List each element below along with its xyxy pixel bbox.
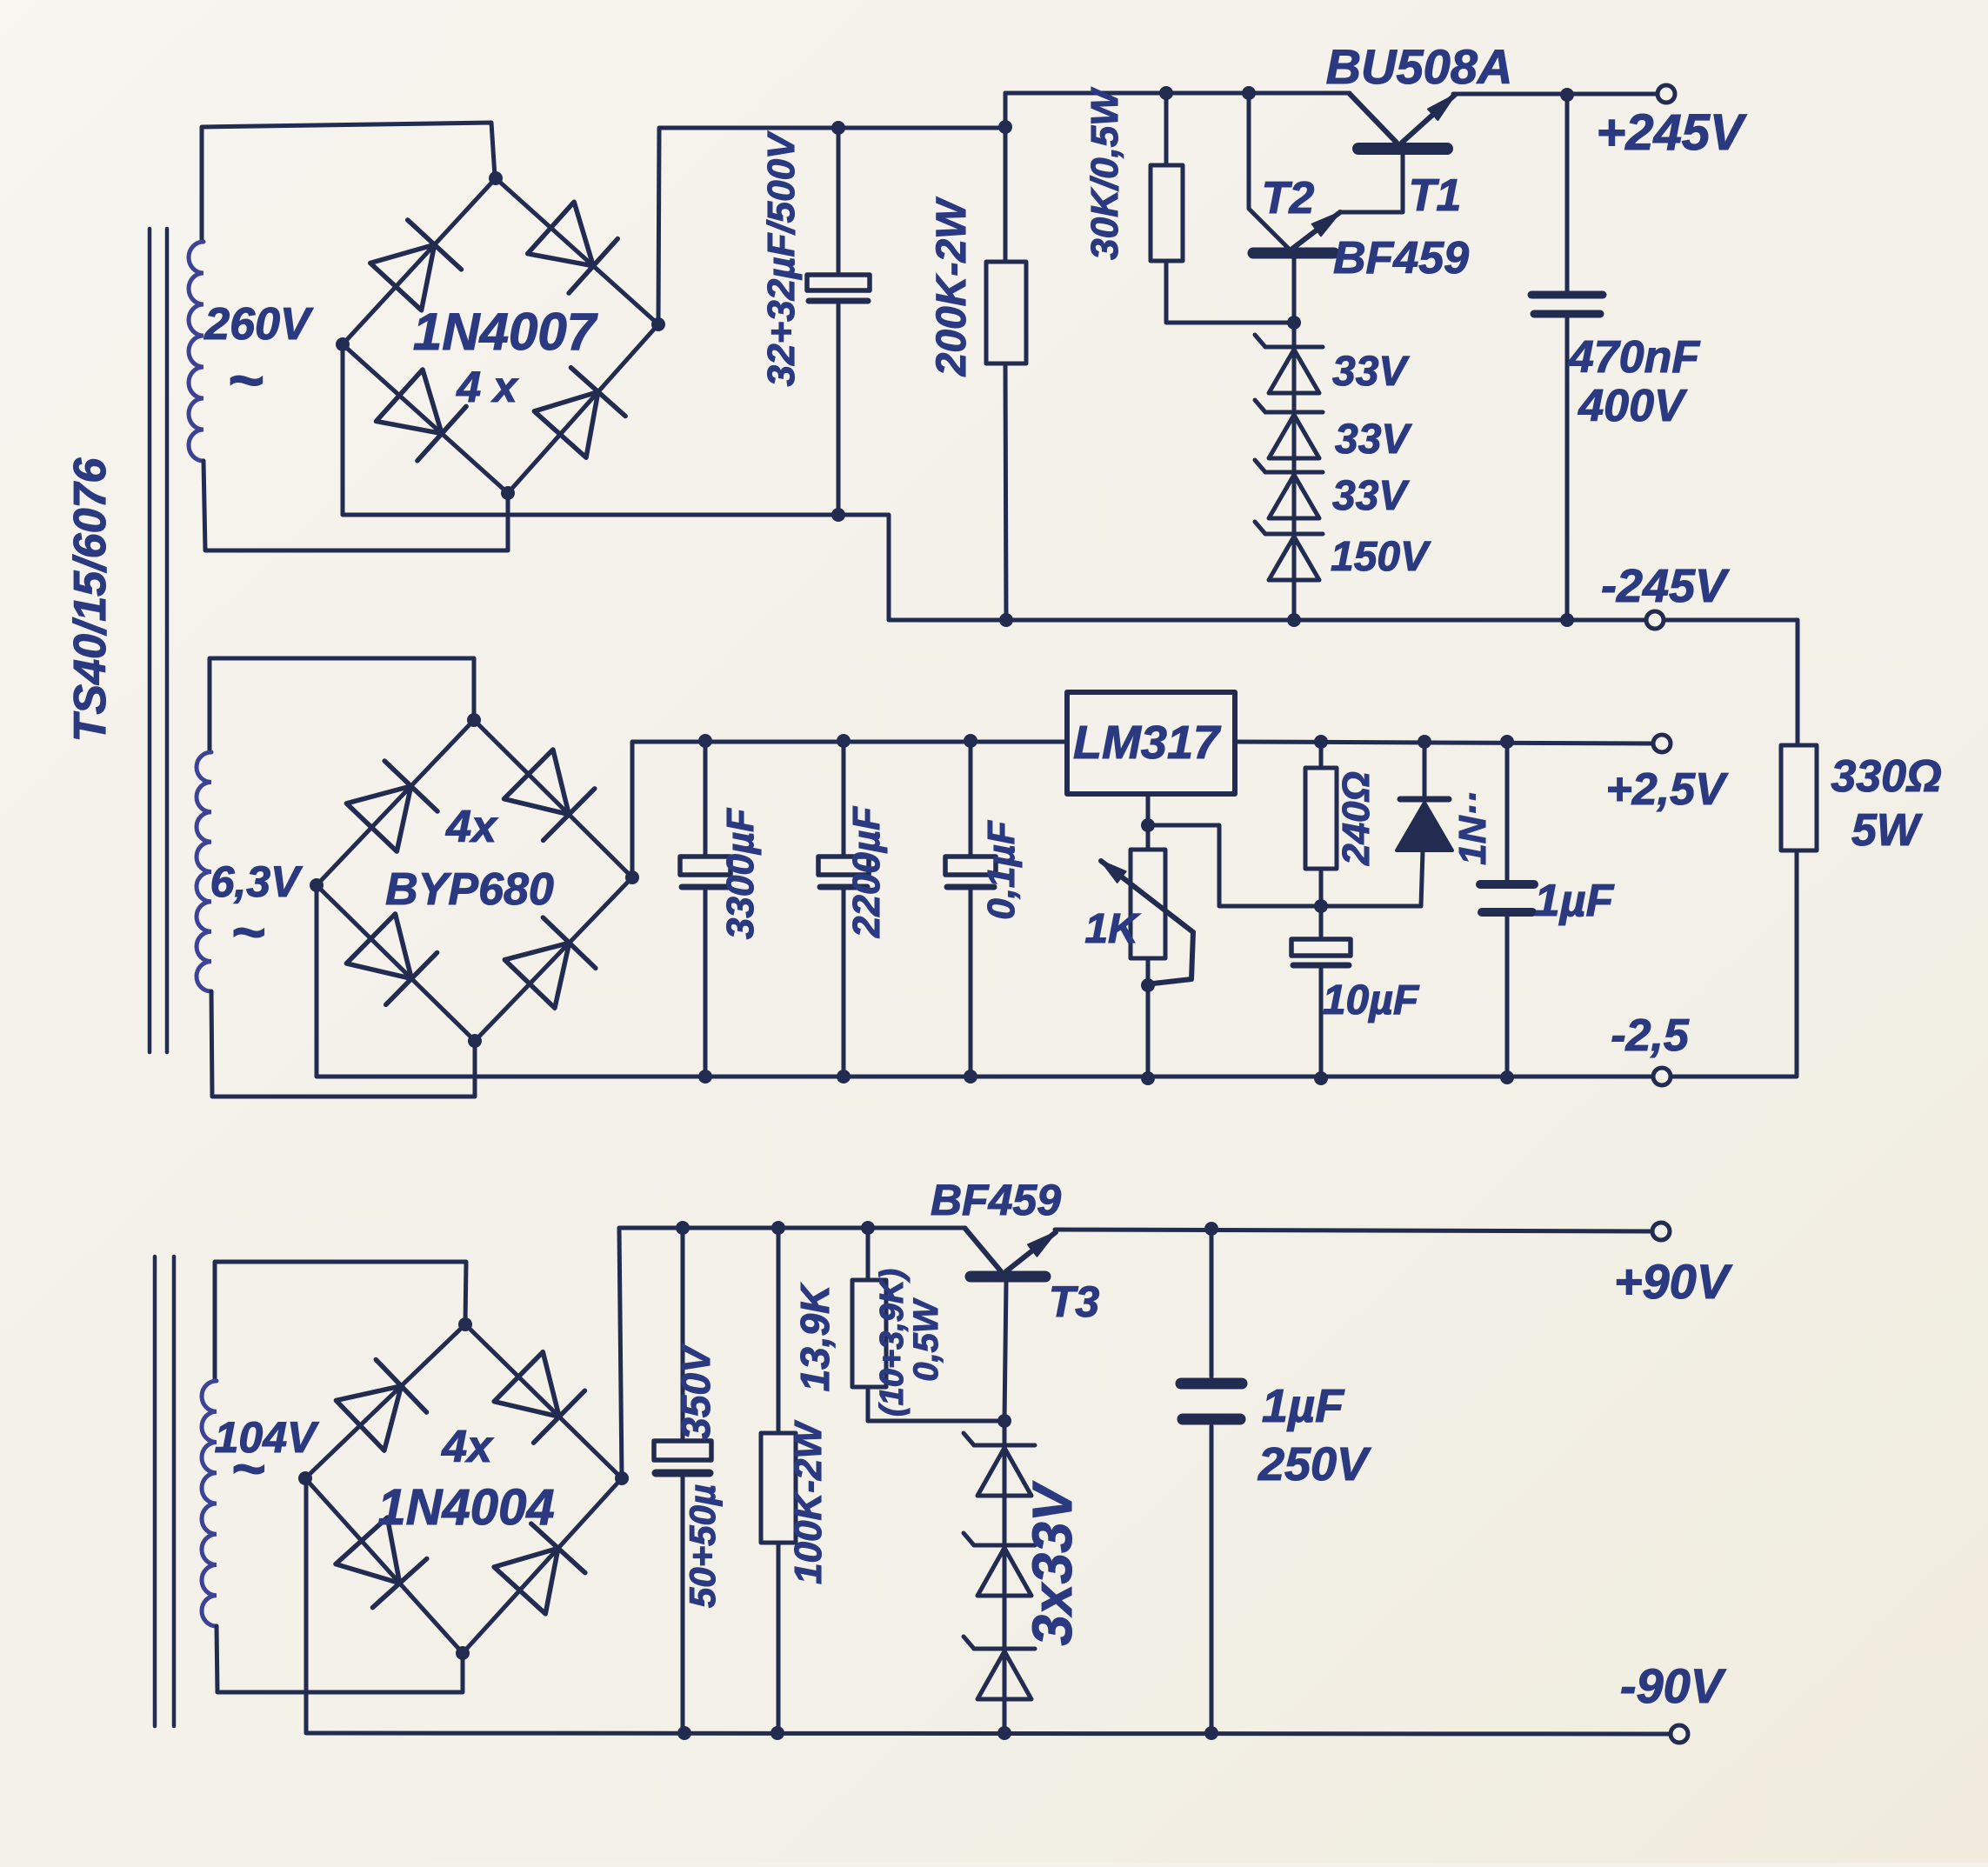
svg-text:470nF: 470nF xyxy=(1568,332,1701,383)
svg-text:(10+3,9K): (10+3,9K) xyxy=(874,1269,911,1417)
svg-text:400V: 400V xyxy=(1578,381,1688,431)
svg-text:-2,5: -2,5 xyxy=(1611,1010,1690,1061)
svg-text:LM317: LM317 xyxy=(1073,717,1222,769)
svg-text:33V: 33V xyxy=(1332,349,1410,395)
svg-text:150V: 150V xyxy=(1331,534,1431,580)
svg-text:250V: 250V xyxy=(1258,1438,1371,1490)
svg-text:+2,5V: +2,5V xyxy=(1605,764,1729,815)
svg-text:10µF: 10µF xyxy=(1323,977,1420,1024)
svg-text:+245V: +245V xyxy=(1596,104,1747,161)
svg-text:4x: 4x xyxy=(445,802,498,852)
svg-text:T1: T1 xyxy=(1409,170,1462,221)
svg-text:-245V: -245V xyxy=(1601,560,1730,612)
svg-text:~: ~ xyxy=(227,346,264,416)
svg-text:T3: T3 xyxy=(1049,1277,1100,1326)
svg-text:T2: T2 xyxy=(1262,173,1315,223)
svg-text:1N4004: 1N4004 xyxy=(377,1479,554,1536)
svg-text:330Ω: 330Ω xyxy=(1831,751,1941,802)
svg-text:0,5W: 0,5W xyxy=(907,1297,945,1382)
svg-text:1N··: 1N·· xyxy=(1451,790,1494,865)
svg-text:+90V: +90V xyxy=(1614,1254,1733,1309)
svg-text:2200µF: 2200µF xyxy=(845,806,888,938)
svg-text:13,9K: 13,9K xyxy=(792,1283,837,1392)
svg-text:1µF: 1µF xyxy=(1262,1380,1345,1432)
svg-text:33V: 33V xyxy=(1335,417,1412,463)
svg-text:4x: 4x xyxy=(441,1422,494,1472)
svg-text:33V: 33V xyxy=(1332,473,1410,519)
svg-text:240Ω: 240Ω xyxy=(1335,771,1378,866)
svg-text:~: ~ xyxy=(230,1436,265,1502)
svg-text:30K/0,5W: 30K/0,5W xyxy=(1084,87,1126,260)
svg-text:1µF: 1µF xyxy=(1535,876,1615,926)
svg-text:100K-2W: 100K-2W xyxy=(787,1420,830,1584)
svg-text:BU508A: BU508A xyxy=(1326,39,1513,94)
svg-text:32+32µF/500V: 32+32µF/500V xyxy=(760,130,803,386)
svg-text:4 x: 4 x xyxy=(456,363,519,411)
svg-text:200K-2W: 200K-2W xyxy=(929,197,975,377)
svg-text:3x33V: 3x33V xyxy=(1021,1480,1084,1645)
svg-text:0,1µF: 0,1µF xyxy=(980,820,1023,920)
svg-text:1K: 1K xyxy=(1084,906,1141,952)
svg-text:BF459: BF459 xyxy=(1333,233,1469,283)
svg-text:1N4007: 1N4007 xyxy=(413,303,598,361)
svg-text:350V: 350V xyxy=(673,1344,718,1440)
svg-text:~: ~ xyxy=(230,899,265,965)
svg-text:BF459: BF459 xyxy=(931,1176,1061,1224)
svg-text:TS40/15/6076: TS40/15/6076 xyxy=(65,457,116,743)
svg-text:50+50µ: 50+50µ xyxy=(682,1484,723,1608)
svg-text:3300µF: 3300µF xyxy=(719,808,762,939)
svg-text:-90V: -90V xyxy=(1620,1658,1727,1713)
svg-text:5W: 5W xyxy=(1851,805,1923,856)
svg-text:BYP680: BYP680 xyxy=(385,864,554,915)
svg-text:260V: 260V xyxy=(203,299,314,350)
